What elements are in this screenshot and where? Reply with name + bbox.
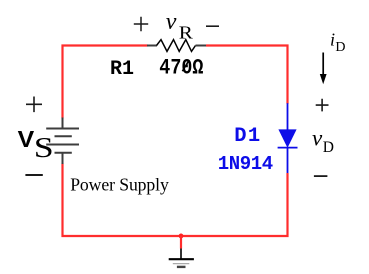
svg-text:Power Supply: Power Supply [70, 175, 169, 195]
svg-text:S: S [34, 133, 54, 165]
label v_R (voltage across resistor) [166, 9, 194, 43]
diode D1 cathode lead (blue) [287, 148, 289, 174]
wire: battery + terminal up left side, across top to resistor left lead [63, 46, 148, 119]
label V_S (source voltage) [18, 127, 54, 165]
ground lead (dark) [180, 249, 182, 260]
value label 470Ω [159, 56, 203, 81]
svg-text:470Ω: 470Ω [159, 56, 203, 81]
wire: ground stub (red) [180, 236, 182, 249]
node: ground junction dot [179, 234, 184, 239]
svg-text:v: v [166, 9, 177, 35]
minus sign (battery V_S) [25, 174, 42, 176]
diode D1 cathode bar [278, 147, 298, 149]
battery VS top lead (dark) [62, 118, 64, 129]
label Power Supply [70, 175, 169, 195]
battery VS plate 4 (short, -) [55, 152, 72, 154]
wire: resistor right lead across top-right corner down to diode anode [206, 46, 288, 104]
resistor R1 right lead [196, 45, 207, 47]
battery VS plate 1 (long, +) [46, 128, 79, 130]
ground bar 1 [169, 258, 194, 260]
label R1 (reference designator) [110, 58, 134, 81]
ground bar 3 [177, 266, 186, 268]
svg-text:R1: R1 [110, 58, 134, 81]
minus sign (resistor v_R, right) [206, 25, 219, 27]
svg-text:R: R [179, 24, 194, 43]
resistor R1 zigzag body [157, 40, 196, 52]
plus sign (resistor v_R, left) [134, 17, 148, 31]
svg-text:i: i [330, 30, 335, 50]
plus sign (battery V_S) [26, 97, 42, 113]
diode D1 anode lead (blue) [287, 103, 289, 130]
ground bar 2 [173, 263, 190, 265]
label D1 (reference designator, blue) [234, 125, 261, 148]
battery VS plate 2 (short) [55, 135, 72, 137]
svg-text:V: V [18, 127, 35, 153]
svg-text:D: D [323, 139, 334, 156]
svg-text:D1: D1 [234, 125, 261, 148]
minus sign (diode v_D) [314, 175, 328, 177]
diode D1 triangle [278, 129, 296, 148]
battery VS plate 3 (long) [46, 144, 79, 146]
wire: diode cathode down right side, across bottom to ground junction [181, 173, 288, 236]
label i_D (diode current) [330, 30, 346, 55]
svg-text:v: v [312, 126, 323, 151]
plus sign (diode v_D) [316, 99, 329, 112]
value label 1N914 (blue) [218, 153, 273, 175]
current arrow iD head [320, 74, 327, 84]
current arrow iD shaft [322, 53, 324, 78]
battery VS bottom lead (dark) [62, 153, 64, 164]
svg-text:1N914: 1N914 [218, 153, 273, 175]
resistor R1 left lead [147, 45, 157, 47]
label v_D (voltage across diode) [312, 126, 334, 157]
svg-text:D: D [335, 40, 345, 55]
wire: ground junction across bottom-left corner up to battery - terminal [63, 164, 182, 237]
